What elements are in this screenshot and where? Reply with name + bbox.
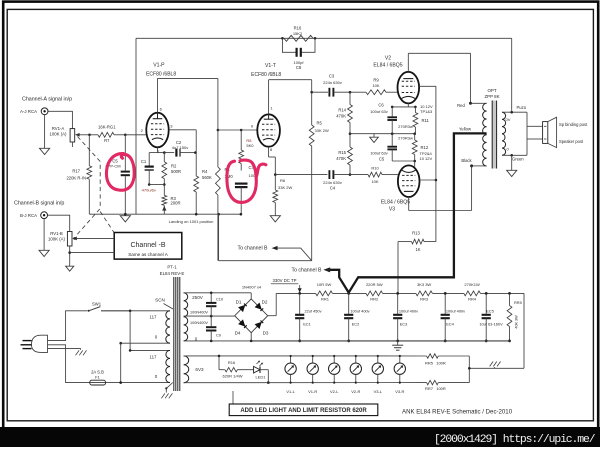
- svg-text:470K: 470K: [336, 156, 346, 161]
- svg-text:R5: R5: [317, 121, 323, 126]
- svg-text:220K R-IN: 220K R-IN: [66, 176, 86, 181]
- svg-text:100K (A): 100K (A): [50, 132, 68, 137]
- svg-text:R13: R13: [412, 230, 420, 235]
- wire feedback top rail: [136, 37, 512, 214]
- svg-text:Puzo: Puzo: [517, 105, 527, 110]
- capacitor EC5 10uf 63-160V: [479, 293, 503, 342]
- LED LED1: [254, 361, 269, 383]
- resistor RR3 3K3 3W: [416, 282, 433, 302]
- svg-text:RR3: RR3: [420, 297, 429, 302]
- wire V1-T cathode (pin 8) to C4 line: [269, 147, 328, 176]
- heater V2-R: [350, 355, 361, 394]
- wire V1-P plate to V1-T grid (direct coupling): [158, 78, 258, 131]
- svg-text:Sp binding post: Sp binding post: [559, 122, 588, 127]
- svg-text:ZPP 8K: ZPP 8K: [484, 94, 499, 99]
- svg-text:100R: 100R: [436, 361, 446, 366]
- capacitor C1 470u/6v: [141, 153, 158, 193]
- svg-text:200R: 200R: [171, 201, 181, 206]
- wire V2 plate rail to red lead: [408, 53, 470, 103]
- svg-text:560K: 560K: [202, 175, 212, 180]
- text landing note: [169, 219, 214, 224]
- svg-text:D2: D2: [262, 299, 268, 304]
- svg-text:100uf 63v: 100uf 63v: [370, 109, 388, 114]
- svg-text:TP1&3: TP1&3: [420, 109, 433, 114]
- svg-text:R17: R17: [72, 169, 80, 174]
- wire RCA-B to RV1-B: [48, 215, 70, 231]
- resistor R11 270R3w: [398, 107, 429, 134]
- resistor R5 33K 2W: [309, 92, 329, 261]
- svg-text:V2-L: V2-L: [330, 389, 339, 394]
- svg-text:[2000x1429] https://upic.me/: [2000x1429] https://upic.me/: [434, 434, 596, 446]
- svg-text:D3: D3: [263, 330, 269, 335]
- svg-text:100uf 63v: 100uf 63v: [370, 150, 388, 155]
- text To channel B (upper) with arrow: [238, 246, 312, 261]
- wire 117V tap links: [101, 310, 170, 384]
- note box ADD LED LIGHT AND LIMIT RESISTOR 620R: [229, 391, 378, 416]
- svg-text:SW1: SW1: [92, 301, 102, 306]
- svg-text:22uf 450v: 22uf 450v: [304, 308, 321, 313]
- capacitor C5 6PP-CM: [105, 135, 129, 214]
- svg-text:100R: 100R: [436, 386, 446, 391]
- wire signal ground bus (channel A): [89, 213, 241, 216]
- wire V2 cathode node: [391, 103, 433, 114]
- ground (input bus at C5): [120, 216, 130, 222]
- svg-text:R15: R15: [338, 150, 346, 155]
- svg-text:Speaker post: Speaker post: [559, 139, 584, 144]
- wire V1-P pin 3 to C2 node: [169, 130, 197, 153]
- wire V2 screen feed: [419, 86, 437, 241]
- svg-text:D4: D4: [235, 330, 241, 335]
- resistor R12 270R3w: [398, 134, 432, 163]
- triode V1-P ECF80/6BL8: [146, 62, 176, 154]
- svg-text:10 12V: 10 12V: [420, 156, 433, 161]
- svg-text:33K 2W: 33K 2W: [278, 185, 292, 190]
- svg-text:100N400V: 100N400V: [190, 321, 208, 325]
- capacitor EC1 22uf 450v: [295, 293, 321, 342]
- svg-text:R7: R7: [104, 138, 110, 143]
- wire mains neutral to fuse: [48, 345, 90, 383]
- svg-text:Landing on 1001 position: Landing on 1001 position: [169, 219, 214, 224]
- capacitor C5 100uf 63v (V3 bypass): [370, 134, 397, 162]
- box Channel-B: [114, 233, 182, 260]
- svg-text:R10: R10: [371, 166, 379, 171]
- svg-text:33K 2W: 33K 2W: [315, 128, 329, 133]
- svg-text:OPT: OPT: [487, 88, 496, 93]
- svg-text:R12: R12: [421, 145, 429, 150]
- resistor RR4 270K1W: [464, 282, 481, 302]
- svg-text:10R 5W: 10R 5W: [317, 282, 332, 287]
- transformer PT-1 EL84 REV-E: [150, 264, 209, 391]
- svg-text:C5: C5: [379, 156, 385, 161]
- wire black lead: [461, 158, 486, 168]
- svg-text:270K1W: 270K1W: [464, 282, 480, 287]
- svg-text:5K0: 5K0: [246, 143, 254, 148]
- capacitor C7 100p: [235, 165, 258, 215]
- wire ground rail (PSU): [251, 340, 509, 342]
- node 330V DC TP: [271, 278, 302, 292]
- svg-text:A-J RCA: A-J RCA: [20, 109, 37, 114]
- svg-text:330V DC TP: 330V DC TP: [272, 278, 296, 283]
- heater V3-L: [372, 355, 383, 394]
- svg-text:EL84 / 6BQ5: EL84 / 6BQ5: [373, 63, 402, 69]
- wire yellow lead (thick B+ center tap with arrow): [324, 126, 487, 292]
- svg-text:C9: C9: [216, 332, 221, 337]
- svg-text:ADD LED LIGHT AND LIMIT RESIST: ADD LED LIGHT AND LIMIT RESISTOR 620R: [240, 408, 367, 414]
- svg-text:270R3w: 270R3w: [398, 136, 413, 141]
- capacitor C8 100pf: [282, 38, 315, 70]
- svg-text:EC1: EC1: [303, 322, 311, 327]
- resistor R4 560K: [194, 153, 212, 215]
- svg-text:100N400V: 100N400V: [190, 310, 208, 314]
- resistor R14 470K: [336, 92, 352, 135]
- svg-text:6V3: 6V3: [195, 367, 204, 372]
- svg-text:RV1-A: RV1-A: [52, 126, 65, 131]
- svg-text:10K: 10K: [372, 83, 379, 88]
- svg-text:PT-1: PT-1: [167, 264, 177, 269]
- svg-text:224n 630v: 224n 630v: [323, 80, 342, 85]
- svg-text:270R3w: 270R3w: [398, 124, 413, 129]
- wire bridge output to B+ rail: [250, 293, 276, 342]
- resistor R10 10K: [368, 166, 397, 185]
- ground (OPT secondary): [507, 155, 517, 176]
- svg-text:Channel -B: Channel -B: [130, 242, 165, 249]
- diode bridge 1N4007 x4: [235, 284, 268, 332]
- potentiometer RV1-A: [50, 126, 90, 147]
- svg-text:RR5: RR5: [514, 300, 522, 305]
- diode D3: [255, 321, 269, 336]
- capacitor C6 100uf 63v: [370, 103, 397, 134]
- svg-text:V1-L: V1-L: [286, 389, 295, 394]
- svg-text:To channel B: To channel B: [292, 268, 323, 274]
- svg-text:10uf 63-160V: 10uf 63-160V: [479, 322, 503, 327]
- capacitor EC2 100uf 400v: [344, 293, 370, 342]
- svg-text:V2-R: V2-R: [351, 389, 360, 394]
- svg-text:R11: R11: [422, 118, 430, 123]
- svg-text:RR7: RR7: [425, 386, 434, 391]
- resistor R6 33K 2W: [273, 175, 293, 216]
- svg-text:100uf 400v: 100uf 400v: [399, 308, 418, 313]
- svg-text:C8: C8: [296, 65, 302, 70]
- resistor R2 500R: [162, 153, 181, 186]
- svg-text:220R 5W: 220R 5W: [366, 282, 383, 287]
- svg-text:R14: R14: [338, 107, 346, 112]
- svg-text:Yellow: Yellow: [459, 126, 472, 131]
- svg-text:B-J RCA: B-J RCA: [20, 213, 37, 218]
- resistor RR2 220R 5W: [366, 282, 383, 302]
- resistor R16 620R 1/4W (LED limit): [219, 356, 254, 378]
- wire V3 plate: [420, 179, 436, 181]
- svg-text:10K: 10K: [371, 179, 378, 184]
- svg-text:470K: 470K: [336, 113, 346, 118]
- capacitor EC3 100uf 400v: [393, 293, 418, 342]
- ground (chassis near heater return): [490, 362, 501, 369]
- svg-text:EC3: EC3: [400, 322, 408, 327]
- svg-text:16K-RG1: 16K-RG1: [98, 125, 116, 130]
- wire B+ rail end down to heater return: [469, 293, 524, 368]
- diode D1: [236, 299, 247, 312]
- wire heater bus: [184, 355, 471, 384]
- svg-text:40K 3W: 40K 3W: [515, 315, 519, 329]
- svg-text:V3: V3: [389, 206, 395, 212]
- svg-text:EC2: EC2: [352, 322, 360, 327]
- ground (PSU earth): [392, 341, 403, 350]
- resistor R17 220K R-IN: [66, 135, 91, 214]
- resistor R8 5K0: [239, 130, 254, 171]
- svg-text:RR2: RR2: [370, 297, 379, 302]
- svg-text:RV1-B: RV1-B: [50, 231, 63, 236]
- wire cathode bottom node: [149, 184, 164, 186]
- svg-text:V3-L: V3-L: [374, 389, 383, 394]
- wire B+ rail: [276, 292, 524, 295]
- wire mains earth: [48, 349, 87, 356]
- svg-text:C6: C6: [378, 103, 384, 108]
- resistor RR5 40K 3W (bleeder): [507, 293, 522, 342]
- diode D2: [255, 299, 268, 311]
- svg-text:V2: V2: [385, 56, 391, 62]
- svg-text:100uf 400v: 100uf 400v: [350, 308, 369, 313]
- speaker: [543, 117, 588, 147]
- resistor RR7 100R (heater bottom): [425, 380, 446, 391]
- svg-text:1N4007 x4: 1N4007 x4: [242, 284, 262, 289]
- capacitor EC4 100uf 400v: [441, 293, 466, 342]
- resistor RR1 10R 5W: [316, 282, 333, 302]
- wire mains live to SW1: [48, 311, 88, 341]
- capacitor C10: [206, 293, 224, 316]
- svg-text:R16: R16: [228, 360, 236, 365]
- resistor R1 1M0: [216, 130, 234, 261]
- pentode V2 EL84/6BQ5: [373, 56, 419, 104]
- RCA jack A-J (channel A input): [20, 96, 72, 114]
- heater V2-L: [329, 355, 340, 394]
- mains plug: [21, 335, 48, 352]
- svg-text:117: 117: [150, 354, 158, 359]
- svg-text:100uf 400v: 100uf 400v: [446, 308, 465, 313]
- svg-text:To channel B: To channel B: [238, 246, 269, 252]
- svg-text:EL84 REV-E: EL84 REV-E: [160, 271, 185, 276]
- fuse F1 2A S.B: [90, 369, 170, 385]
- svg-text:4u7 150v: 4u7 150v: [172, 145, 188, 150]
- svg-text:ECF80 /6BL8: ECF80 /6BL8: [251, 72, 281, 78]
- heater V1-L: [285, 355, 296, 394]
- svg-text:15K2: 15K2: [293, 31, 303, 36]
- svg-text:RR1: RR1: [321, 297, 330, 302]
- resistor R13 1K: [398, 230, 436, 293]
- svg-text:V3-R: V3-R: [395, 389, 404, 394]
- pentode V3 EL84/6BQ5: [381, 165, 420, 212]
- svg-text:620R 1/4W: 620R 1/4W: [222, 373, 242, 378]
- svg-text:R4: R4: [202, 169, 208, 174]
- wire channel feed (B+ to channel B): [219, 214, 312, 261]
- svg-text:Same as channel A: Same as channel A: [128, 252, 169, 257]
- ground (RCA-B): [39, 219, 49, 257]
- transformer OPT ZPP 8K: [483, 88, 506, 169]
- ground (RV1-B): [66, 266, 74, 271]
- potentiometer RV1-B: [48, 231, 114, 266]
- svg-text:EC4: EC4: [446, 322, 454, 327]
- resistor RR5 100R (heater top): [425, 354, 446, 366]
- wire RV1-A wiper node: [88, 134, 98, 137]
- resistor R7 16K-RG1: [98, 125, 125, 143]
- resistor R3 200R with landing arrow: [162, 185, 181, 215]
- diode D4: [235, 319, 247, 335]
- svg-text:D1: D1: [236, 299, 242, 304]
- svg-text:Black: Black: [461, 158, 472, 163]
- svg-text:C3: C3: [329, 74, 335, 79]
- svg-text:V1-T: V1-T: [265, 63, 276, 69]
- svg-text:3K3 3W: 3K3 3W: [417, 282, 431, 287]
- svg-text:ECF80 /6BL8: ECF80 /6BL8: [146, 72, 176, 78]
- svg-text:ANK EL84 REV-E Schematic / Dec: ANK EL84 REV-E Schematic / Dec-2010: [402, 409, 513, 416]
- svg-text:EL84 / 6BQ5: EL84 / 6BQ5: [381, 200, 410, 206]
- svg-text:C1: C1: [141, 159, 147, 164]
- ground (R6): [270, 216, 280, 222]
- dashed link RV1-A wiper to RV1-B: [76, 137, 114, 237]
- capacitor C4 224n 630v: [323, 170, 368, 190]
- capacitor C9: [206, 316, 221, 341]
- svg-text:1K: 1K: [415, 247, 420, 252]
- svg-text:100K (A): 100K (A): [48, 237, 66, 242]
- text To channel B (lower) with arrow: [292, 268, 330, 274]
- svg-text:LED1: LED1: [255, 375, 266, 380]
- wire V3 bottom to black lead: [409, 166, 472, 211]
- svg-text:224n 630v: 224n 630v: [323, 180, 342, 185]
- svg-text:RR5: RR5: [425, 361, 434, 366]
- svg-text:C10: C10: [216, 296, 224, 301]
- svg-text:Green: Green: [512, 157, 524, 162]
- svg-text:V1-P: V1-P: [153, 62, 165, 68]
- svg-text:Red: Red: [457, 103, 465, 108]
- svg-text:Channel-B signal in/p: Channel-B signal in/p: [14, 201, 64, 207]
- RCA jack B-J (channel B input): [14, 201, 64, 219]
- svg-text:SCN: SCN: [155, 298, 165, 303]
- switch SW1: [88, 301, 130, 312]
- wire grid V1-P (pin 2): [124, 128, 146, 136]
- wire bias node (R14/R15 to R11/R12): [350, 132, 416, 135]
- heater V1-R: [307, 355, 318, 394]
- svg-text:RR4: RR4: [468, 297, 477, 302]
- resistor R15 470K: [336, 134, 352, 175]
- svg-text:EC5: EC5: [486, 308, 494, 313]
- resistor R16 15K2 (feedback): [284, 26, 313, 42]
- svg-text:Channel-A signal in/p: Channel-A signal in/p: [22, 96, 72, 102]
- wire V3 grid: [396, 174, 399, 176]
- svg-text:470u/6v: 470u/6v: [142, 187, 156, 192]
- resistor R9 10K: [366, 78, 398, 95]
- svg-text:V1-R: V1-R: [308, 389, 317, 394]
- text ANK EL84 REV-E Schematic / Dec-2010: [402, 409, 513, 416]
- wire V1-T plate (pin 1) to C3 node: [269, 80, 313, 115]
- triode V1-T ECF80/6BL8: [251, 63, 282, 152]
- ground (PT core to chassis): [161, 383, 172, 399]
- wire OPT secondary taps: [502, 105, 543, 162]
- svg-text:250V: 250V: [192, 295, 204, 300]
- wire HT secondary to bridge: [184, 292, 252, 343]
- heater V3-R: [394, 355, 405, 394]
- svg-text:0V: 0V: [506, 117, 511, 122]
- wire V1-P cathode (pin 7): [158, 147, 166, 154]
- svg-text:F1: F1: [95, 374, 100, 379]
- svg-text:117: 117: [150, 314, 158, 319]
- wire red lead: [457, 102, 486, 108]
- wire RCA-A to RV1-A top: [48, 111, 72, 128]
- ground (bias divider): [370, 134, 379, 143]
- capacitor C3 224n 630v: [312, 74, 366, 97]
- svg-text:C4: C4: [330, 185, 336, 190]
- svg-text:500R: 500R: [171, 169, 181, 174]
- wire V3 cathode node: [392, 161, 415, 167]
- svg-text:R6: R6: [280, 178, 286, 183]
- ground (RCA-A): [40, 115, 50, 155]
- annotation highlight circle around C5: [106, 154, 134, 191]
- capacitor C2 4u7 150v: [164, 140, 196, 157]
- annotation highlight circle around C7: [227, 160, 266, 202]
